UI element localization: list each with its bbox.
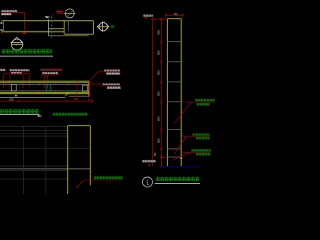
grid vertical 1 — [23, 127, 25, 194]
label D underline — [98, 71, 121, 73]
label C leg 2 — [47, 75, 49, 88]
column rung 4 — [167, 101, 181, 103]
break mark yellow diagonal — [65, 93, 68, 96]
vertical dim line outer — [151, 19, 153, 166]
section symbol bottom: circle — [11, 39, 22, 50]
column top edge — [167, 18, 181, 20]
plan beam bottom edge (yellow) — [2, 31, 65, 33]
leader arrow tip — [22, 32, 26, 34]
grid vertical 2 — [45, 127, 47, 194]
svg-text:850: 850 — [157, 138, 161, 143]
label D leader diagonal — [89, 72, 98, 82]
right block right end cap yellow — [92, 21, 94, 35]
vertical dim line inner — [160, 19, 162, 166]
dim ticks on inner line — [160, 41, 162, 168]
right step bottom grey — [69, 95, 90, 97]
left end tiny text bottom — [0, 29, 2, 31]
top dim extension right — [181, 14, 183, 18]
ground line navy — [161, 166, 200, 168]
label C line1 — [40, 69, 62, 71]
label B red bracket — [4, 73, 30, 75]
inner division white line — [67, 21, 69, 31]
recess edge yellow — [49, 28, 65, 30]
label B line1 — [9, 69, 29, 71]
leader leg D through beam — [76, 79, 78, 99]
note green text (right of title 2) — [53, 113, 88, 116]
right block bottom edge yellow — [64, 33, 93, 35]
grid line 2 — [0, 130, 68, 132]
red dim tick 2 — [66, 100, 68, 102]
elevation bubble label text — [56, 10, 63, 12]
label R1 line2 — [197, 103, 210, 106]
plan beam bottom inner line (navy) — [4, 30, 64, 32]
label C line2 — [42, 72, 58, 74]
red dim tick 1 — [17, 100, 19, 102]
column left edge — [166, 19, 168, 167]
red leader to label E — [90, 83, 103, 85]
section symbol bottom: yellow diameter — [11, 43, 24, 45]
elevation bubble diagonal — [68, 11, 73, 16]
label R2 underline — [183, 135, 210, 137]
cyan inner line segment right — [68, 90, 83, 92]
end cap red cross top — [88, 81, 91, 83]
red dim line — [0, 100, 94, 102]
label B leg 1 — [3, 74, 5, 88]
beam inner top grey line — [0, 84, 89, 86]
elevation bubble circle — [65, 9, 74, 18]
section symbol right: triangle — [97, 22, 102, 32]
label D line1 — [104, 69, 120, 71]
beam top chord lower yellow — [0, 82, 89, 84]
section symbol right: right diamond half — [104, 22, 109, 32]
label R3 line2 — [196, 153, 211, 156]
grid line 4 — [0, 135, 68, 137]
yellow column top edge — [68, 125, 91, 127]
plan beam left end cap — [3, 21, 5, 31]
label C leg 1 — [43, 75, 45, 88]
stud 1 white box — [11, 85, 16, 91]
section symbol bottom: inner mark — [16, 43, 18, 46]
leader vertical into plan — [24, 12, 26, 33]
label R1 underline — [185, 101, 215, 103]
left end tiny text top — [0, 22, 2, 24]
column right edge — [180, 19, 182, 167]
column rung 7 — [167, 156, 181, 158]
label R2 line2 — [196, 137, 210, 140]
grid line 5 — [0, 148, 90, 150]
top dim red line — [166, 14, 183, 16]
section symbol right: circle — [99, 23, 107, 31]
title 3 green text — [156, 177, 199, 181]
svg-text:50: 50 — [153, 153, 157, 156]
recess edge navy — [49, 28, 65, 30]
section symbol bottom: triangle — [11, 37, 23, 42]
dim tick at top outer — [151, 18, 153, 20]
leader 2 diagonal — [174, 136, 186, 154]
svg-text:740: 740 — [73, 97, 78, 101]
level red arrow — [144, 17, 148, 19]
grid line 3 — [0, 132, 68, 134]
stud 3 white box — [83, 85, 88, 91]
teal line inside bottom chord — [0, 92, 89, 94]
title 3 bubble circle — [143, 177, 153, 187]
white arrow near centerline — [45, 16, 51, 18]
column rung 2 — [167, 61, 181, 63]
leader 1 diagonal — [175, 102, 192, 123]
top dim tick left — [165, 14, 167, 16]
column rung 3 — [167, 81, 181, 83]
svg-text:740: 740 — [173, 12, 178, 16]
beam top chord upper yellow — [0, 80, 89, 82]
yellow dot near rung 7 — [180, 157, 182, 159]
label R2 line1 — [192, 133, 209, 135]
overlay white vertical — [48, 19, 50, 35]
end cap red cross bottom — [88, 94, 91, 96]
teal line inside top chord — [0, 81, 89, 83]
title 2 underline — [0, 113, 39, 115]
right block bottom inner navy — [64, 32, 93, 34]
plan beam top inner line (navy) — [2, 21, 94, 23]
red dim tick 3 — [91, 100, 93, 102]
svg-text:850: 850 — [157, 30, 161, 35]
column rung 1 — [167, 41, 181, 43]
leader 3 diagonal — [172, 152, 190, 160]
level red mark bottom — [148, 164, 151, 166]
yellow column left edge — [67, 126, 69, 194]
yellow column right edge — [89, 126, 91, 186]
note leader underline — [84, 179, 123, 181]
label A text — [0, 69, 5, 71]
title 3 bubble mark — [147, 180, 149, 185]
red leader to elevation bubble — [58, 12, 65, 14]
svg-text:150: 150 — [9, 97, 14, 101]
grid line 7 — [0, 170, 68, 172]
top extension red horizontal — [152, 18, 167, 20]
label R3 line1 — [191, 149, 211, 152]
top dim extension left — [165, 14, 167, 18]
beam right end cap red — [89, 82, 91, 97]
left end red dot — [1, 32, 2, 35]
label B line2 — [11, 72, 22, 74]
label B leg 2 — [9, 74, 11, 88]
grid line 8 — [0, 178, 68, 180]
label R3 underline — [183, 151, 211, 153]
red tick at centerline top — [52, 14, 54, 16]
grid top edge — [0, 126, 68, 128]
red tick horizontal at 157.5 — [161, 157, 167, 159]
label B leg 3 — [22, 74, 24, 88]
top dim tick right — [182, 14, 184, 16]
label E line2 — [107, 87, 121, 89]
svg-text:950: 950 — [157, 91, 161, 96]
section letter VI (green) — [111, 25, 115, 28]
beam bottom chord lower yellow — [0, 93, 89, 95]
note text line 2 (material note bold) — [1, 13, 11, 15]
title 3 underline — [155, 182, 200, 184]
white dim tick text above — [15, 95, 18, 97]
red end arrows on dim — [89, 98, 92, 101]
column rung 6 — [167, 148, 181, 150]
dim tick at top inner — [160, 18, 162, 20]
label E underline — [100, 85, 121, 87]
beam bottom chord upper yellow — [0, 91, 89, 93]
note green text — [94, 176, 123, 179]
beam inner bottom grey line — [0, 90, 89, 92]
title 2 scale mark — [38, 115, 42, 117]
right block step vertical — [63, 21, 65, 34]
red ticks on top chord — [6, 83, 68, 84]
title 1 underline — [0, 55, 53, 57]
grid line bright — [0, 168, 90, 170]
overlay white horizontal — [49, 35, 89, 37]
white dim line — [0, 96, 65, 98]
label B leg 4 — [29, 74, 31, 87]
stud 2 cyan box — [46, 85, 51, 91]
note leader diagonal — [78, 180, 85, 187]
label R1 line1 — [195, 99, 215, 102]
grid line 6 — [0, 165, 68, 167]
label D line2 — [106, 72, 120, 74]
svg-text:950: 950 — [157, 50, 161, 55]
leader underline for note — [2, 11, 25, 13]
beam right end cap yellow — [88, 81, 90, 96]
title 2 green text — [0, 109, 39, 114]
level text +0.00 — [142, 160, 156, 163]
section symbol right: yellow diameter — [98, 26, 109, 28]
note leader red dot — [77, 187, 78, 188]
plan beam top edge (yellow) — [2, 20, 94, 22]
centerline cyan dashed — [51, 16, 53, 38]
svg-text:950: 950 — [157, 70, 161, 75]
label C underline — [40, 74, 60, 76]
level text top-left — [143, 15, 153, 17]
title 1 green text — [2, 49, 52, 54]
column rung 5 — [167, 129, 181, 131]
note text line 1 (material note) — [1, 10, 17, 12]
label E line1 — [103, 83, 120, 85]
svg-text:600: 600 — [157, 116, 161, 121]
red ticks on bottom chord — [6, 91, 56, 92]
elevation bubble yellow diameter — [64, 12, 75, 14]
